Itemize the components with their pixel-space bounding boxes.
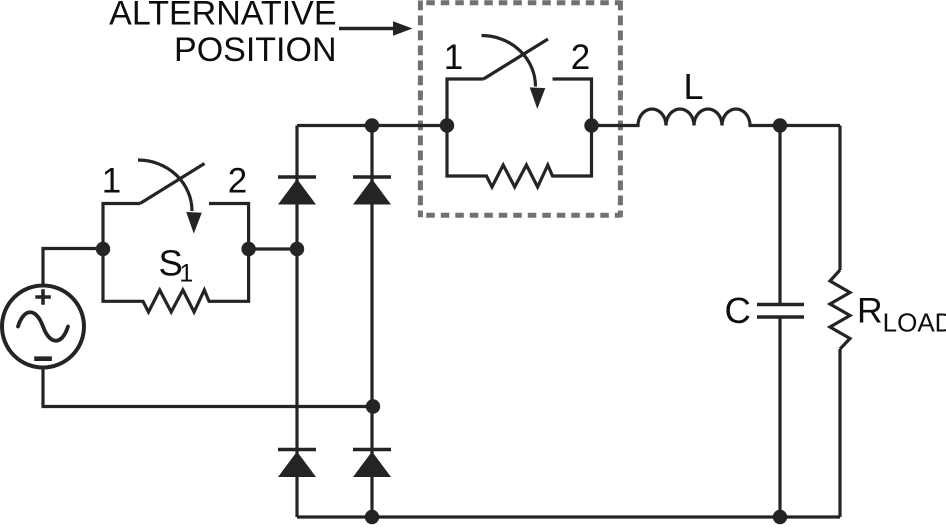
junction dot: S1 right node — [241, 242, 255, 256]
svg-text:RLOAD: RLOAD — [857, 291, 946, 338]
wire: R bottom to bottom rail — [838, 349, 841, 517]
dashed box bottom edge — [421, 213, 621, 218]
capacitor C — [757, 126, 804, 518]
diode D3 — [278, 450, 316, 478]
wire: source top to S1 left node — [43, 249, 103, 287]
V1 minus polarity mark — [34, 356, 52, 361]
wire: bridge right leg — [370, 126, 373, 518]
junction dot: return wire at bridge right leg — [366, 399, 380, 413]
S1 blade — [140, 164, 205, 204]
S2 pole stub pin 1 — [447, 79, 484, 126]
svg-text:C: C — [725, 290, 751, 331]
diode D2 — [353, 177, 391, 205]
R_LOAD zigzag — [830, 270, 850, 349]
svg-text:POSITION: POSITION — [174, 31, 336, 69]
svg-text:S1: S1 — [159, 243, 194, 288]
S2 blade — [484, 39, 549, 79]
junction dot: bottom rail at C — [773, 510, 787, 524]
S2 throw stub pin 2 — [553, 79, 592, 126]
junction dot: bottom rail at bridge right leg — [365, 510, 379, 524]
S1 throw stub pin 2 — [209, 204, 249, 250]
S2 motion arc arrow — [482, 36, 536, 87]
svg-text:1: 1 — [444, 38, 463, 77]
junction dot: S2 right node — [584, 118, 598, 132]
junction dot: top rail at bridge right leg — [365, 118, 379, 132]
wire: bottom rail — [297, 515, 840, 518]
junction dot: bridge left leg at S1 wire — [290, 242, 304, 256]
wire: C bottom plate to bottom rail — [778, 319, 781, 518]
S1 motion arc arrow — [138, 160, 192, 211]
dashed box left edge — [418, 1, 423, 218]
wire: top rail corner down to R — [838, 126, 841, 271]
S1 pole stub pin 1 — [103, 204, 140, 250]
diode D4 — [353, 450, 391, 478]
junction dot: S1 left node — [96, 242, 110, 256]
dashed box right edge — [618, 1, 623, 218]
diode D1 — [278, 177, 316, 205]
bridge rectifier — [278, 126, 447, 518]
switch S2 (alternative position) — [444, 36, 592, 126]
wire: bridge left leg — [295, 126, 298, 518]
resistor bypass of S2 — [447, 126, 592, 188]
arrow: label to alternative box — [339, 21, 413, 35]
svg-text:2: 2 — [228, 162, 247, 201]
label: ALTERNATIVE POSITION — [109, 0, 336, 69]
svg-text:L: L — [684, 66, 704, 107]
svg-text:ALTERNATIVE: ALTERNATIVE — [109, 0, 336, 33]
junction dot: S2 left node — [440, 118, 454, 132]
resistor bypass of S1 — [103, 249, 249, 312]
alternative position dashed box — [420, 1, 620, 218]
V1 plus polarity mark — [35, 289, 51, 304]
junction dot: L output node — [773, 118, 787, 132]
wire: node to C top plate — [778, 126, 781, 304]
V1 circle body — [2, 286, 84, 368]
svg-text:1: 1 — [102, 162, 121, 201]
svg-text:2: 2 — [571, 38, 590, 77]
V1 sine symbol — [18, 312, 68, 341]
switch S1 — [102, 160, 249, 249]
inductor L — [592, 109, 841, 125]
AC source V1 — [2, 286, 84, 368]
resistor R_LOAD — [830, 126, 850, 518]
wire: top rail to box — [297, 124, 447, 127]
C top plate — [757, 303, 804, 307]
wire: S1 right node to bridge — [249, 247, 297, 250]
C bottom plate — [757, 315, 804, 319]
dashed box top edge — [421, 0, 621, 5]
wire: source bottom return to bridge right leg — [43, 367, 373, 407]
